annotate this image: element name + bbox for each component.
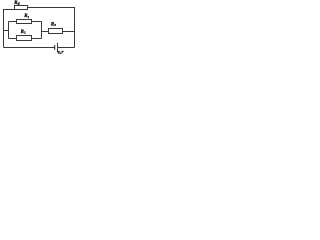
wire: R2 right lead to junction — [32, 38, 42, 40]
wire: R3 right lead to right bus — [63, 31, 75, 33]
wire: inner bus — [8, 22, 10, 39]
svg-text:R4: R4 — [14, 0, 19, 6]
resistor R2 — [17, 36, 32, 41]
battery cell: long plate — [57, 43, 59, 53]
resistor R1 — [17, 20, 32, 24]
wire: R1 right lead to junction — [32, 21, 42, 23]
wire: top-left segment and left bus — [4, 10, 15, 48]
wire: R1 left lead — [9, 21, 17, 23]
wire: rung from left bus to inner bus — [4, 30, 9, 32]
wire: bottom side, left of battery — [4, 47, 55, 49]
wire: R4 right lead, top side, right bus — [28, 8, 75, 48]
wire: junction vertical — [41, 22, 43, 39]
resistor R3 — [49, 29, 63, 34]
wire: R2 left lead — [9, 38, 17, 40]
svg-text:R2: R2 — [21, 30, 26, 35]
wire: junction to R3 left lead — [42, 31, 49, 33]
svg-text:R1: R1 — [24, 14, 29, 19]
wire: bottom side, right of battery — [58, 47, 75, 49]
resistor R4 — [15, 6, 28, 10]
battery cell: short plate — [54, 45, 56, 50]
svg-text:R3: R3 — [51, 22, 56, 27]
svg-text:ε,r: ε,r — [58, 50, 65, 56]
